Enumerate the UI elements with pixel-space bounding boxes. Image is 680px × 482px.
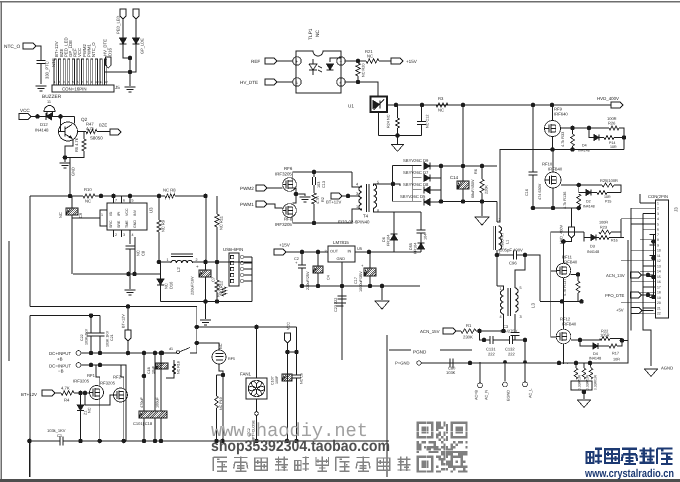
- svg-text:6: 6: [657, 228, 659, 232]
- wire r33 bot: [572, 146, 574, 150]
- wire sense top b: [583, 363, 585, 368]
- U3 pin6 stub: [121, 196, 123, 203]
- tag +5V: [631, 308, 642, 314]
- diode D6 FR104: [391, 234, 398, 240]
- junction ac a: [468, 361, 473, 366]
- wire rf11 gate: [551, 270, 557, 272]
- wire L3 in: [497, 286, 504, 290]
- svg-text:BT+12V: BT+12V: [21, 392, 37, 397]
- svg-text:11: 11: [100, 80, 103, 84]
- bus y149: [553, 149, 625, 151]
- transformer L3 left coil: [501, 290, 504, 314]
- junction y441 i: [254, 439, 259, 444]
- wire rf11 drain: [563, 242, 565, 264]
- capacitor C13: [313, 177, 316, 185]
- diode D4 stage1: [594, 135, 599, 141]
- svg-text:OUT: OUT: [330, 250, 339, 254]
- AC box top edge a: [389, 349, 411, 351]
- main bus y196 c: [175, 195, 206, 197]
- junction C14 bot: [461, 199, 466, 204]
- junction c131 left: [482, 338, 487, 343]
- svg-text:RF6: RF6: [284, 166, 293, 171]
- svg-text:C2: C2: [294, 257, 299, 261]
- U3 pin5 stub: [129, 196, 131, 203]
- svg-text:SBYV26C D7: SBYV26C D7: [403, 170, 429, 175]
- junction y286 d: [368, 284, 373, 289]
- svg-text:−: −: [340, 59, 343, 64]
- mosfet RF12: [556, 329, 571, 344]
- svg-text:3: 3: [657, 212, 659, 216]
- svg-text:NTC_O: NTC_O: [91, 42, 96, 57]
- IC U3: [107, 203, 147, 230]
- svg-text:RF8: RF8: [284, 217, 293, 222]
- ground 15v rail: [375, 301, 389, 309]
- connector USB-6PIN: [229, 253, 239, 286]
- svg-text:230K: 230K: [463, 335, 473, 340]
- resistor R4: [61, 391, 74, 395]
- pin number row CON-16PIN: [54, 80, 108, 84]
- svg-text:SRE: SRE: [117, 220, 121, 228]
- svg-text:U3: U3: [149, 207, 154, 213]
- svg-text:NC R9: NC R9: [161, 219, 166, 232]
- svg-text:103K 1KV: 103K 1KV: [106, 330, 110, 347]
- svg-text:11: 11: [657, 254, 661, 258]
- svg-text:ACN_15V: ACN_15V: [420, 329, 440, 334]
- transformer T4 right coil: [374, 184, 377, 208]
- resistor R9: [157, 220, 161, 232]
- svg-text:IN4148: IN4148: [35, 128, 49, 133]
- page bottom border band: [0, 479, 680, 482]
- svg-text:21: 21: [657, 306, 661, 310]
- wire vcc down: [287, 343, 289, 441]
- tag BZE: [110, 129, 121, 135]
- junction L2r b: [215, 260, 220, 265]
- wire c21b: [99, 337, 101, 354]
- wire j3 v631: [630, 208, 632, 313]
- svg-text:NC R20: NC R20: [362, 63, 366, 77]
- junction half bridge mid: [550, 147, 555, 152]
- junction acl: [523, 360, 527, 364]
- wire c22: [90, 316, 92, 333]
- svg-text:BT+12V: BT+12V: [122, 314, 126, 328]
- wire r26 right: [619, 128, 624, 150]
- opto pin collector: [337, 57, 345, 65]
- capacitor C14: [457, 181, 469, 189]
- wire d2 mid: [592, 192, 598, 194]
- tag HVD_400V: [611, 102, 623, 108]
- wire rf1 top: [96, 365, 100, 386]
- wire C8 down: [129, 250, 131, 275]
- connector J3 left comb wires: [621, 203, 654, 313]
- svg-text:0.33R/1W: 0.33R/1W: [586, 374, 590, 390]
- svg-text:ISI: ISI: [109, 212, 113, 216]
- svg-text:L3: L3: [531, 303, 536, 308]
- svg-text:D55: D55: [409, 243, 413, 250]
- svg-text:15: 15: [657, 275, 661, 279]
- svg-text:4: 4: [132, 233, 134, 237]
- wire PWM2 to gate: [267, 187, 283, 189]
- junction y343: [195, 341, 200, 346]
- junction l3 pin4: [501, 329, 506, 334]
- svg-text:IN4148: IN4148: [583, 205, 595, 209]
- current sense cluster resistors: [570, 367, 572, 369]
- svg-text:5: 5: [132, 199, 134, 203]
- junction pfo tag: [646, 293, 651, 298]
- svg-text:NC: NC: [219, 343, 223, 349]
- bus y441 right: [63, 440, 389, 442]
- wire C14 bot: [462, 189, 464, 202]
- svg-text:2: 2: [115, 233, 117, 237]
- AC box top edge b: [440, 349, 472, 351]
- resistor P19: [215, 396, 219, 408]
- resistor R6: [480, 179, 484, 193]
- svg-text:C23 222: C23 222: [334, 298, 338, 312]
- junction y286 c: [340, 284, 345, 289]
- switch d1: [163, 348, 190, 354]
- wire r17 r: [617, 341, 622, 347]
- bus y365: [81, 365, 126, 441]
- ground AGND: [645, 369, 658, 377]
- svg-text:VCC: VCC: [20, 108, 30, 113]
- wire r16 out: [609, 237, 624, 239]
- svg-text:17: 17: [657, 285, 661, 289]
- resistor R5: [82, 139, 86, 151]
- svg-text:1000uF/35V: 1000uF/35V: [359, 271, 363, 292]
- wire D12 to collector node: [52, 116, 75, 118]
- wire gnd stub: [64, 158, 66, 163]
- mosfet RF6: [283, 178, 297, 192]
- diode feed stubs: [392, 166, 421, 202]
- tag HV_DTE top: [106, 57, 112, 68]
- tag PFO_DTE: [631, 292, 642, 298]
- junction hv x422: [420, 103, 425, 108]
- svg-text:1: 1: [500, 287, 502, 291]
- junction ac b: [557, 361, 562, 366]
- junction r137 top: [576, 272, 581, 277]
- wire RF6 drain up: [293, 172, 352, 181]
- capacitor C7: [199, 270, 211, 277]
- wire d3 left: [584, 237, 591, 239]
- wire C7 top: [205, 262, 207, 270]
- capacitor C16: [529, 172, 538, 175]
- wire HVDTE to opto: [277, 81, 293, 83]
- capacitor C6: [292, 375, 301, 378]
- wire L1 to L3: [496, 255, 498, 286]
- opto inner wires: [330, 58, 341, 62]
- wire sense bot: [583, 390, 585, 399]
- diode D7 SBYV26C: [424, 175, 430, 182]
- AC box left edge: [386, 335, 388, 477]
- svg-text:CON=16PIN: CON=16PIN: [62, 87, 87, 92]
- junction bus x205: [203, 194, 208, 199]
- svg-text:4.7R: 4.7R: [316, 196, 320, 204]
- wire rf12 src: [563, 344, 565, 364]
- svg-text:16: 16: [657, 280, 661, 284]
- USB pin circles: [240, 255, 244, 283]
- svg-text:19: 19: [657, 296, 661, 300]
- svg-text:10: 10: [95, 80, 99, 84]
- wire bt tag stem: [127, 307, 129, 331]
- svg-text:AGND: AGND: [661, 366, 673, 371]
- svg-text:C8: C8: [141, 250, 146, 256]
- resistor R18: [172, 364, 176, 374]
- wire node down to base: [58, 117, 61, 132]
- svg-text:11: 11: [47, 100, 51, 104]
- svg-text:NC: NC: [58, 212, 63, 218]
- svg-text:+15V: +15V: [279, 243, 291, 248]
- wire rf2 top: [121, 365, 124, 388]
- junction hv x463: [461, 103, 466, 108]
- svg-text:NC: NC: [438, 108, 444, 113]
- svg-text:4.7k R33: 4.7k R33: [561, 132, 565, 147]
- svg-text:SRC: SRC: [109, 220, 113, 228]
- svg-text:NC P19: NC P19: [219, 397, 223, 410]
- wire r137 wires: [577, 275, 579, 282]
- junction y301 left: [203, 299, 208, 304]
- junction top bus C13: [312, 170, 317, 175]
- ground U3: [125, 290, 136, 295]
- wire p19 tie: [217, 374, 224, 376]
- capacitor C23: [338, 296, 347, 299]
- svg-text:NC R18: NC R18: [177, 361, 181, 374]
- junction y327 fan: [254, 325, 259, 330]
- svg-text:PFO_DTE: PFO_DTE: [605, 293, 625, 298]
- wire d55 bot: [420, 249, 422, 252]
- svg-text:J5: J5: [115, 85, 120, 90]
- wire R5 to gnd: [65, 151, 84, 158]
- svg-text:3: 3: [356, 192, 358, 196]
- svg-text:3: 3: [520, 315, 522, 319]
- main bus y196: [30, 195, 83, 197]
- connector J3 pin numbers: [657, 201, 661, 315]
- svg-text:INV: INV: [133, 209, 137, 216]
- wire bus x206 drop: [205, 196, 207, 262]
- junction y441 h: [220, 439, 225, 444]
- svg-text:R26: R26: [608, 121, 616, 126]
- mosfet RF8: [283, 204, 297, 218]
- junction ac d: [588, 361, 593, 366]
- svg-text:RF2: RF2: [113, 375, 122, 380]
- svg-text:IN4148: IN4148: [589, 357, 601, 361]
- junction y353 c: [126, 351, 131, 356]
- svg-text:L1: L1: [506, 240, 510, 244]
- junction diode out top: [439, 164, 444, 169]
- wire L3 pin5 up: [515, 255, 525, 288]
- wire U1 bottom drop: [378, 112, 380, 136]
- junction y441 e: [153, 439, 158, 444]
- wire R47 node: [78, 131, 87, 133]
- wire pfo tag: [642, 294, 654, 296]
- wire j3 down2: [630, 314, 632, 331]
- wire x196 drop: [196, 307, 198, 354]
- svg-text:IPI: IPI: [117, 212, 121, 216]
- svg-text:205pF 400V: 205pF 400V: [500, 248, 523, 253]
- transformer T4 left coil: [359, 186, 362, 210]
- svg-text:470uF: 470uF: [140, 397, 144, 408]
- ground equals u5: [334, 303, 346, 306]
- tag PWM2: [256, 185, 267, 191]
- resistor R12: [215, 280, 219, 292]
- svg-text:10R: 10R: [613, 358, 620, 362]
- wire fan top: [256, 327, 258, 378]
- junction y441 b: [97, 439, 102, 444]
- transistor Q2: [59, 122, 78, 141]
- junction x358 y61: [356, 59, 361, 64]
- resistor R23: [599, 230, 611, 234]
- wire hvd tag: [571, 208, 573, 227]
- junction LED node B: [128, 70, 133, 75]
- wire R9 top: [158, 196, 160, 220]
- connector pin stubs CON-16PIN: [54, 59, 107, 85]
- junction C14 top: [461, 164, 466, 169]
- junction y327 left: [195, 325, 200, 330]
- wire c6 col: [296, 327, 298, 375]
- diode D16: [157, 279, 164, 285]
- left drop x30: [29, 196, 31, 307]
- junction y301 right: [215, 299, 220, 304]
- junction y365 b: [98, 363, 103, 368]
- fan FAN1 blades: [248, 380, 264, 396]
- svg-text:C16: C16: [525, 189, 529, 196]
- junction y301 a: [560, 299, 565, 304]
- diode D3: [591, 235, 596, 241]
- wire c3 col: [514, 314, 516, 332]
- wire rf2 bot: [123, 398, 125, 441]
- junction y441 d: [142, 439, 147, 444]
- wire x223 down: [222, 375, 224, 441]
- wire u5 in right: [355, 251, 421, 253]
- junction L2 left: [157, 260, 162, 265]
- U3 pin4 stub: [129, 230, 131, 244]
- tag BT+12V bottom: [42, 390, 55, 396]
- wire R12 bot: [216, 292, 218, 302]
- capacitor C131: [490, 336, 493, 344]
- tag HVD vert: [569, 227, 575, 238]
- wire y286: [302, 285, 420, 287]
- capacitor C22: [87, 333, 96, 336]
- svg-text:+: +: [196, 264, 199, 269]
- svg-text:C107: C107: [271, 376, 275, 385]
- svg-text:103K: 103K: [446, 370, 456, 375]
- wire r33 top: [572, 128, 574, 134]
- resistor RS3: [589, 368, 593, 379]
- resistor R17: [609, 344, 617, 348]
- wire c17 top: [369, 252, 371, 268]
- wire c18 col b: [154, 353, 156, 411]
- wire sw right: [190, 352, 197, 354]
- wire rf12 right: [571, 339, 600, 341]
- wire d6 bot: [393, 240, 395, 252]
- wire x29 to bottom: [29, 441, 31, 477]
- tag BT+12V vert: [125, 330, 131, 341]
- resistor R8: [165, 194, 175, 198]
- svg-text:220K: 220K: [485, 185, 489, 194]
- U3 pin7 stub: [113, 196, 115, 203]
- junction L1 C96: [495, 253, 500, 258]
- wire r1 to l3: [476, 330, 504, 332]
- wire cluster to gate chain: [551, 232, 584, 255]
- tag ACN_15V left: [443, 328, 456, 334]
- svg-text:CON(2PIN: CON(2PIN: [648, 194, 668, 199]
- junction hv x552: [550, 103, 555, 108]
- pin circle DC+ B: [76, 351, 81, 356]
- wire REF to opto: [277, 60, 293, 62]
- capacitor C18: [139, 411, 167, 418]
- wire r136 bot: [578, 206, 580, 208]
- wire pin8 ext: [380, 211, 421, 213]
- wire j3 down1: [643, 308, 651, 366]
- wire c4 top: [317, 252, 319, 266]
- junction gate rf10: [577, 183, 582, 188]
- svg-text:C7: C7: [211, 276, 216, 282]
- svg-text:4: 4: [657, 217, 659, 221]
- wire R5 top: [83, 132, 85, 140]
- svg-text:RF5: RF5: [228, 357, 235, 361]
- wire j3 v643: [642, 214, 644, 309]
- wire bt to r4: [55, 392, 61, 394]
- resistor RS2: [582, 368, 586, 379]
- tag BT+12V t4: [331, 193, 342, 199]
- svg-text:R1: R1: [466, 323, 472, 328]
- junction bus x157: [157, 194, 162, 199]
- junction LED node A: [128, 56, 133, 61]
- wire acn stub: [479, 362, 481, 383]
- svg-text:NC: NC: [88, 407, 92, 413]
- wire LED1 to node: [123, 44, 130, 58]
- junction pin5 node: [391, 182, 396, 187]
- junction L2r a: [203, 260, 208, 265]
- svg-text:PGND: PGND: [413, 350, 427, 355]
- svg-text:C9: C9: [78, 212, 83, 218]
- svg-text:SBYV26C D5: SBYV26C D5: [400, 194, 426, 199]
- wire acn2 stub: [504, 362, 506, 381]
- svg-text:0.33R/1W: 0.33R/1W: [594, 374, 598, 390]
- svg-text:LM7815: LM7815: [333, 240, 349, 245]
- svg-text:6: 6: [123, 199, 125, 203]
- wire 15v to IC: [286, 251, 328, 253]
- svg-text:GP_LDE: GP_LDE: [140, 38, 145, 54]
- wire C12 bot: [421, 125, 423, 136]
- resistor R16: [599, 236, 609, 240]
- diode out stubs mid: [430, 177, 441, 179]
- opto pin emitter: [337, 78, 345, 86]
- svg-text:2: 2: [196, 258, 198, 262]
- wire R6 bot: [481, 193, 483, 202]
- svg-text:D16: D16: [108, 48, 113, 56]
- wire L1 top: [496, 202, 498, 223]
- junction rf10 src: [551, 206, 556, 211]
- junction rf12 g: [578, 338, 583, 343]
- junction R6 top: [480, 164, 485, 169]
- svg-text:4.7K: 4.7K: [61, 386, 70, 391]
- wire C16 col: [532, 105, 534, 172]
- wire C16 bot: [532, 175, 534, 208]
- wire j3 v640: [639, 194, 641, 203]
- wire j3 v621: [620, 219, 622, 232]
- svg-text:BZE: BZE: [99, 123, 107, 128]
- svg-text:222: 222: [488, 352, 495, 357]
- svg-text:4: 4: [356, 183, 358, 187]
- wire d3 mid: [597, 237, 600, 239]
- wire y301: [161, 301, 253, 303]
- wire RF9 drain: [552, 105, 554, 121]
- T4 pin3 stub: [358, 196, 362, 198]
- svg-text:100F: 100F: [275, 375, 279, 384]
- resistor R24: [396, 118, 400, 128]
- svg-text:NTC_O: NTC_O: [4, 44, 21, 50]
- wire mid to gnd: [296, 194, 305, 196]
- svg-text:SBYV26C D8: SBYV26C D8: [403, 182, 429, 187]
